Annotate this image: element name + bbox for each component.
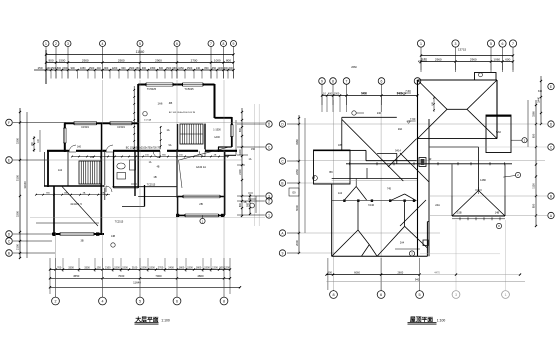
svg-text:4B: 4B [244,201,247,204]
svg-text:1:100: 1:100 [437,318,446,322]
svg-text:3: 3 [67,42,69,46]
svg-text:240: 240 [377,112,382,115]
svg-text:150: 150 [251,148,256,151]
svg-text:1500: 1500 [114,267,120,270]
svg-text:1.5B: 1.5B [456,212,461,215]
svg-text:1B: 1B [153,175,156,179]
svg-text:3B: 3B [80,240,83,243]
svg-text:1: 1 [504,293,506,297]
svg-text:2: 2 [55,42,57,46]
svg-text:7000: 7000 [118,274,125,278]
svg-text:600: 600 [121,67,126,70]
svg-text:5: 5 [490,42,492,46]
svg-text:1500: 1500 [89,67,95,70]
svg-text:7A40: 7A40 [368,203,375,207]
svg-text:TC2515: TC2515 [147,184,156,187]
svg-text:960: 960 [172,67,177,70]
svg-text:3300: 3300 [16,210,20,217]
svg-text:150: 150 [97,267,102,270]
svg-text:1:100: 1:100 [161,318,170,322]
svg-text:F: F [8,121,10,125]
svg-text:2700: 2700 [158,267,164,270]
svg-text:1A6: 1A6 [158,102,163,106]
svg-text:1-1500: 1-1500 [213,129,221,132]
svg-text:E: E [8,159,10,163]
svg-text:8: 8 [223,300,225,304]
svg-text:C1519: C1519 [117,125,125,129]
svg-text:屋顶平面: 屋顶平面 [410,315,433,323]
svg-text:1A2: 1A2 [338,192,343,195]
svg-text:2900: 2900 [82,58,89,62]
svg-text:2A4: 2A4 [400,242,405,245]
svg-text:600: 600 [229,67,234,70]
svg-text:850: 850 [532,203,536,208]
svg-text:1200: 1200 [112,67,118,70]
svg-text:5A0: 5A0 [496,130,501,134]
svg-text:600: 600 [239,202,242,207]
svg-text:1500: 1500 [187,267,193,270]
svg-text:24A: 24A [435,203,440,207]
svg-text:1500: 1500 [187,67,193,70]
svg-text:4A43 1A: 4A43 1A [196,165,206,169]
svg-text:4470: 4470 [434,272,440,275]
svg-text:2100: 2100 [132,267,138,270]
svg-text:1500: 1500 [149,267,155,270]
svg-text:TC5025: TC5025 [184,87,194,91]
svg-text:B9: B9 [329,170,333,174]
svg-text:6: 6 [502,42,504,46]
svg-text:1500: 1500 [141,267,147,270]
svg-text:4B: 4B [157,167,160,169]
svg-text:1: 1 [45,42,47,46]
svg-text:745: 745 [387,188,392,191]
svg-text:900: 900 [71,67,76,70]
svg-text:3360: 3360 [532,111,536,117]
svg-text:700: 700 [57,267,62,270]
svg-text:7: 7 [512,42,514,46]
svg-text:1: 1 [420,42,422,46]
svg-text:1200: 1200 [239,149,242,155]
svg-text:1500: 1500 [129,67,135,70]
svg-text:大层平面: 大层平面 [135,315,158,323]
svg-text:1350: 1350 [150,67,156,70]
svg-text:3: 3 [455,293,457,297]
svg-text:1050: 1050 [80,67,86,70]
svg-text:2900: 2900 [155,58,162,62]
svg-text:8: 8 [332,293,334,297]
svg-text:1050: 1050 [178,67,184,70]
svg-text:1800: 1800 [179,267,185,270]
svg-text:6060: 6060 [354,271,360,275]
svg-text:2700: 2700 [191,58,198,62]
svg-text:5400: 5400 [397,92,403,95]
svg-text:2100: 2100 [105,267,111,270]
svg-text:9.60: 9.60 [421,57,427,61]
svg-text:8: 8 [332,80,334,84]
svg-text:9: 9 [233,42,235,46]
svg-text:2400: 2400 [168,267,174,270]
svg-text:150: 150 [135,67,140,70]
svg-text:7: 7 [210,42,212,46]
svg-text:1#5: 1#5 [338,144,343,147]
svg-text:2100: 2100 [16,243,20,250]
svg-text:900: 900 [104,67,109,70]
svg-text:7: 7 [346,80,348,84]
svg-text:7000: 7000 [155,274,162,278]
svg-text:6: 6 [176,300,178,304]
svg-text:2900: 2900 [118,58,125,62]
svg-text:800: 800 [226,58,231,62]
svg-text:14B: 14B [111,236,116,238]
svg-text:1#2: 1#2 [77,146,82,149]
svg-text:2250: 2250 [295,169,299,175]
svg-text:940: 940 [415,277,420,281]
svg-text:11540: 11540 [136,50,145,54]
svg-text:1A00: 1A00 [214,136,220,139]
svg-text:1500: 1500 [59,58,66,62]
svg-text:5: 5 [139,42,141,46]
svg-text:BC 103 1540x2100 103 7B: BC 103 1540x2100 103 7B [169,112,196,114]
svg-text:1000: 1000 [334,93,340,96]
svg-text:3360: 3360 [295,139,299,145]
svg-text:6: 6 [380,293,382,297]
svg-text:B: B [281,182,283,186]
svg-text:9A: 9A [169,144,172,147]
svg-text:2B: 2B [199,202,203,206]
svg-text:B: B [550,195,552,199]
svg-text:3300: 3300 [16,137,20,144]
svg-text:1A: 1A [249,158,252,161]
svg-text:1: 1 [268,214,270,218]
svg-text:5: 5 [139,300,141,304]
svg-text:5400: 5400 [361,92,367,95]
svg-text:600: 600 [159,67,164,70]
svg-text:1000: 1000 [214,58,221,62]
svg-text:1200: 1200 [212,267,218,270]
svg-text:4B: 4B [169,101,173,105]
svg-text:2100: 2100 [239,169,242,175]
svg-text:4800: 4800 [197,274,204,278]
svg-text:400: 400 [328,93,333,96]
svg-text:800: 800 [204,67,209,70]
svg-text:1500: 1500 [122,267,128,270]
svg-text:2000: 2000 [295,240,299,246]
svg-text:7.60: 7.60 [405,89,411,93]
svg-text:5: 5 [419,293,421,297]
svg-text:4: 4 [102,300,104,304]
svg-text:3A40: 3A40 [538,96,541,102]
svg-text:800: 800 [57,67,62,70]
svg-text:8: 8 [223,42,225,46]
svg-text:41410 1.5: 41410 1.5 [70,202,82,206]
svg-text:450: 450 [212,67,217,70]
svg-text:11040: 11040 [23,181,27,189]
svg-text:440: 440 [97,67,102,70]
svg-text:1A2: 1A2 [58,169,63,172]
svg-text:2660: 2660 [351,66,357,69]
svg-text:5000: 5000 [295,205,299,211]
svg-text:3: 3 [455,42,457,46]
svg-text:4: 4 [102,42,104,46]
svg-text:900: 900 [247,202,250,207]
svg-text:4550: 4550 [73,274,80,278]
svg-text:5414: 5414 [395,149,401,153]
svg-text:900: 900 [142,67,147,70]
svg-text:1800: 1800 [196,267,202,270]
svg-text:14B: 14B [495,212,500,215]
svg-text:5100: 5100 [16,174,20,181]
svg-text:9: 9 [282,252,284,256]
svg-text:2: 2 [268,200,270,204]
svg-text:C1519: C1519 [81,125,89,129]
svg-text:1060: 1060 [493,57,500,61]
svg-text:2#A: 2#A [398,128,403,131]
svg-text:2600: 2600 [397,271,403,275]
svg-text:1#2 4A: 1#2 4A [144,119,151,122]
svg-text:650: 650 [532,133,536,138]
svg-text:B: B [8,252,10,256]
svg-text:9: 9 [321,80,323,84]
svg-text:1150: 1150 [532,183,536,189]
svg-text:600: 600 [328,271,333,275]
svg-text:2960: 2960 [435,57,442,61]
svg-text:3300: 3300 [84,267,90,270]
svg-text:2960: 2960 [470,57,477,61]
svg-text:E: E [550,85,552,89]
svg-text:1480: 1480 [480,178,486,182]
svg-text:1A: 1A [166,129,169,132]
svg-text:TC2515: TC2515 [115,221,124,224]
svg-text:240: 240 [196,67,201,70]
svg-text:1500: 1500 [166,67,172,70]
svg-text:3300: 3300 [68,267,74,270]
svg-text:1500: 1500 [62,67,68,70]
svg-text:1A: 1A [149,161,152,164]
svg-text:7.60: 7.60 [410,117,416,121]
svg-text:BC 103 1540x2100x750x700 7B: BC 103 1540x2100x750x700 7B [126,146,161,149]
svg-text:340: 340 [538,90,543,93]
svg-text:900: 900 [239,127,242,132]
svg-text:6: 6 [176,42,178,46]
svg-text:6: 6 [381,80,383,84]
svg-text:600: 600 [505,57,510,61]
svg-text:150: 150 [37,66,42,70]
svg-text:1200: 1200 [224,267,230,270]
svg-text:TC5025: TC5025 [147,87,157,91]
svg-text:1500: 1500 [204,267,210,270]
svg-text:13715: 13715 [458,48,467,52]
svg-text:900: 900 [48,58,53,62]
svg-text:2: 2 [55,300,57,304]
